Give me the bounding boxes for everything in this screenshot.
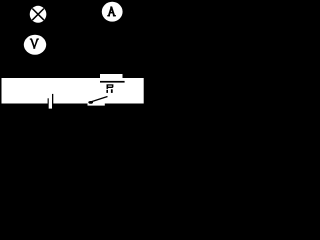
rheostat R bottom edge wire — [100, 81, 125, 83]
battery gap white patch — [49, 100, 52, 109]
battery short plate — [48, 98, 49, 103]
ammeter body — [102, 2, 123, 22]
battery long plate — [52, 94, 53, 104]
switch lever — [91, 97, 108, 103]
switch pivot dot — [88, 101, 93, 104]
lamp cross stroke 1 — [32, 9, 44, 21]
switch contact white patch — [88, 100, 105, 106]
ammeter letter A — [107, 6, 116, 16]
circuit interior fill (bottom loop) — [2, 78, 144, 104]
lamp cross stroke 2 — [32, 9, 44, 21]
voltmeter letter V — [30, 38, 39, 48]
lamp body — [30, 6, 47, 23]
voltmeter body — [24, 35, 46, 55]
label R — [106, 84, 113, 93]
rheostat R body — [100, 74, 123, 81]
